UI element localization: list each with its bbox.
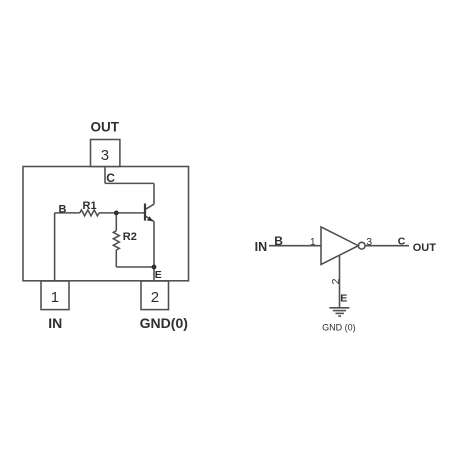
svg-text:C: C [398,236,406,248]
wire: collector vertical [153,183,155,204]
svg-text:3: 3 [101,147,109,164]
svg-text:IN: IN [255,240,268,254]
wire: input [269,245,321,247]
svg-text:3: 3 [366,236,372,248]
junction node dot (base/R2) [114,211,119,216]
pin 3 pad box [91,140,120,167]
svg-text:B: B [274,234,283,248]
svg-text:GND(0): GND(0) [140,315,188,331]
svg-text:R2: R2 [123,231,137,243]
resistor R2 [113,231,119,250]
resistor R1 [80,210,99,216]
svg-text:B: B [59,204,67,216]
svg-text:R1: R1 [83,200,97,212]
ground symbol bar 3 [336,312,344,314]
svg-text:1: 1 [310,237,316,248]
wire: node down to R2 [115,213,117,231]
ground symbol bar 1 [329,307,349,309]
wire: output [365,245,409,247]
inverter output bubble [358,242,365,249]
ground symbol bar 2 [333,310,346,312]
svg-text:2: 2 [330,278,342,284]
transistor Q1 base bar [144,204,146,221]
wire: R1 to base [99,212,145,214]
pin 1 pad box [41,281,69,310]
wire: B node horizontal to R1 [55,212,80,214]
wire: left vertical to pin 1 [54,213,56,281]
wire: emitter vertical to pin 2 [153,222,155,282]
svg-text:2: 2 [151,289,159,306]
transistor Q1 collector diagonal [145,204,154,209]
wire: bottom horizontal to emitter [116,266,154,268]
junction node dot (emitter/R2) [152,265,157,270]
svg-text:C: C [106,171,115,185]
svg-text:OUT: OUT [413,242,437,254]
svg-text:IN: IN [48,315,62,331]
package outline (left device body) [23,167,189,281]
wire: pin3 down into package [104,167,106,184]
svg-text:GND (0): GND (0) [322,322,356,332]
ground symbol bar 4 [338,315,341,317]
wire: R2 bottom down [115,250,117,267]
wire: emitter down from triangle [339,255,341,308]
transistor Q1 emitter diagonal [145,216,154,222]
transistor Q1 emitter arrow [147,216,153,221]
svg-text:OUT: OUT [91,120,120,135]
wire: collector top horizontal [105,182,154,184]
svg-text:E: E [340,292,347,304]
svg-text:1: 1 [51,289,59,306]
svg-text:E: E [155,269,162,281]
inverter triangle U1 [321,227,358,265]
pin 2 pad box [141,281,169,310]
